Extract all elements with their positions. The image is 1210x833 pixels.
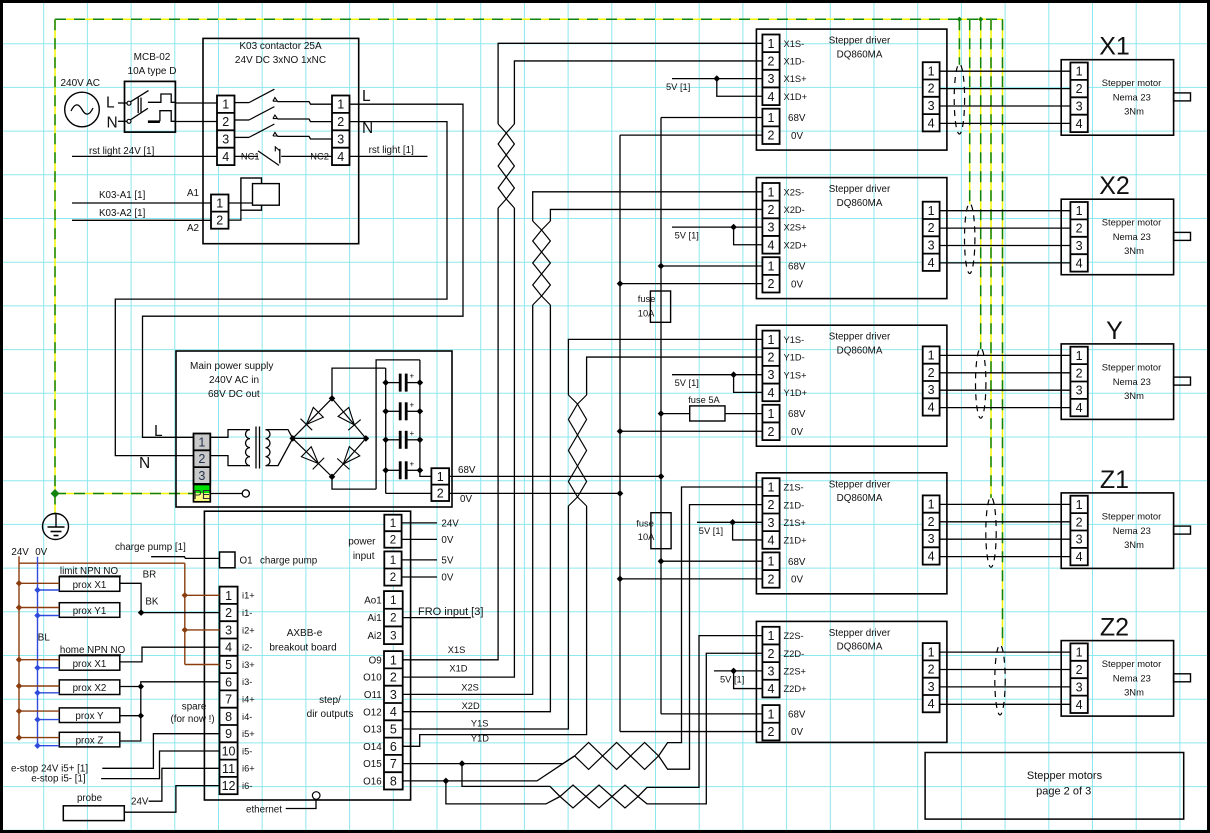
proximity sensor prox X1 xyxy=(59,656,120,671)
wire bridge bottom to capacitor bank xyxy=(332,477,376,489)
svg-text:Y1S+: Y1S+ xyxy=(784,370,807,380)
stepper motor Y shaft xyxy=(1174,377,1191,385)
label O11 xyxy=(364,690,382,701)
svg-text:N: N xyxy=(362,120,373,137)
svg-text:2: 2 xyxy=(768,277,775,291)
twisted pair X1 xyxy=(498,124,514,208)
svg-text:3Nm: 3Nm xyxy=(1124,539,1144,550)
driver X2 output terminals 1-4 xyxy=(923,202,940,271)
svg-text:3: 3 xyxy=(337,133,344,147)
svg-text:O13: O13 xyxy=(363,725,382,736)
svg-text:3: 3 xyxy=(1076,239,1083,253)
svg-text:i6-: i6- xyxy=(242,781,252,791)
PE earth dashed bus top run xyxy=(55,18,1003,20)
svg-text:Y1D+: Y1D+ xyxy=(784,388,808,398)
wire MCB L out to contactor xyxy=(175,102,217,104)
wire 24V to prox X2 xyxy=(16,683,60,689)
svg-text:1: 1 xyxy=(222,98,229,112)
svg-text:240V AC in: 240V AC in xyxy=(209,375,259,386)
label i3- xyxy=(242,677,252,687)
label i2+ xyxy=(242,625,255,635)
svg-text:i3+: i3+ xyxy=(242,660,255,670)
svg-text:4: 4 xyxy=(928,256,935,270)
wire 24V to prox X1 xyxy=(16,580,60,586)
label O10 xyxy=(363,673,382,684)
svg-text:3: 3 xyxy=(768,221,775,235)
label i1- xyxy=(242,608,252,618)
svg-text:5V [1]: 5V [1] xyxy=(675,231,699,241)
label i5+ xyxy=(242,729,255,739)
svg-text:1: 1 xyxy=(928,645,935,659)
svg-text:i2+: i2+ xyxy=(242,625,255,635)
wire O16 to Z drivers dir signal xyxy=(403,778,450,785)
svg-text:4: 4 xyxy=(768,533,775,547)
label i4- xyxy=(242,712,252,722)
wire limit prox X1 and prox Y1 to i1- xyxy=(120,583,220,616)
wire 5V [1] to driver Z1 xyxy=(697,519,762,540)
svg-text:prox Y1: prox Y1 xyxy=(73,606,107,617)
svg-text:1: 1 xyxy=(768,481,775,495)
label i1+ xyxy=(242,591,255,601)
label 0V xyxy=(460,494,472,505)
wire FRO input [3] xyxy=(403,606,484,618)
wire PE terminal to earth stub xyxy=(210,490,249,497)
svg-text:Stepper motor: Stepper motor xyxy=(1102,361,1161,372)
wire Z1 dir in xyxy=(446,756,575,781)
svg-text:i1-: i1- xyxy=(242,608,252,618)
fuse 5A xyxy=(688,395,725,421)
svg-text:Y1S: Y1S xyxy=(471,719,489,729)
svg-text:L: L xyxy=(362,88,371,105)
wire X2D O12 to driver X2 (label X2D) xyxy=(403,209,763,711)
fuse 10A lower xyxy=(636,513,671,549)
svg-text:home NPN NO: home NPN NO xyxy=(60,645,126,656)
svg-text:X1D+: X1D+ xyxy=(784,92,808,102)
svg-text:1: 1 xyxy=(1076,349,1083,363)
stepper driver U4 Z1 box xyxy=(756,473,947,594)
svg-text:68V: 68V xyxy=(788,710,806,721)
wire charge pump [1] xyxy=(115,542,220,558)
label N contactor output xyxy=(362,120,373,137)
svg-text:3Nm: 3Nm xyxy=(1124,245,1144,256)
label X1S- xyxy=(784,39,805,49)
bridge rectifier xyxy=(289,395,369,480)
svg-text:+: + xyxy=(410,372,415,381)
driver Z1 power terminals 1-2 xyxy=(762,552,779,587)
svg-text:24V DC 3xNO 1xNC: 24V DC 3xNO 1xNC xyxy=(235,55,326,66)
axis label X1 xyxy=(1099,33,1130,61)
svg-text:4: 4 xyxy=(768,386,775,400)
svg-text:DQ860MA: DQ860MA xyxy=(837,49,883,60)
svg-text:1: 1 xyxy=(1076,498,1083,512)
svg-text:4: 4 xyxy=(337,150,344,164)
svg-text:DQ860MA: DQ860MA xyxy=(837,345,883,356)
svg-text:X2D-: X2D- xyxy=(784,205,805,215)
label L contactor output xyxy=(362,88,371,105)
svg-text:Z2S+: Z2S+ xyxy=(784,667,806,677)
label 68V xyxy=(788,262,806,273)
PE junction node xyxy=(957,17,962,22)
label X2D- xyxy=(784,205,805,215)
svg-text:9: 9 xyxy=(225,727,232,741)
wire 24V to AXBB i1+ i2+ i3+ xyxy=(182,563,220,664)
wire Y1S O13 to driver Y (label Y1S) xyxy=(403,339,763,729)
svg-text:1: 1 xyxy=(768,407,775,421)
contactor K03 left terminals 1-4 xyxy=(217,96,235,166)
svg-text:7: 7 xyxy=(225,693,232,707)
label NC1 xyxy=(241,152,260,162)
stepper driver U3 Y box xyxy=(756,325,947,446)
wire 0V to driver Z2 xyxy=(620,731,762,733)
svg-text:10A: 10A xyxy=(638,309,655,319)
wire 68V to driver X2 xyxy=(658,263,763,270)
wire 68V to driver Z2 xyxy=(661,713,762,715)
svg-text:prox X1: prox X1 xyxy=(73,580,107,591)
svg-text:O12: O12 xyxy=(363,707,382,718)
twisted pair Z1 xyxy=(575,742,659,769)
svg-text:2: 2 xyxy=(390,613,396,625)
label i5- xyxy=(242,746,252,756)
svg-text:3: 3 xyxy=(768,72,775,86)
label X1S+ xyxy=(784,74,807,84)
PE earth dashed drop to Y cable shield xyxy=(980,19,982,349)
svg-text:1: 1 xyxy=(225,589,232,603)
svg-text:1: 1 xyxy=(437,470,444,484)
svg-text:1: 1 xyxy=(768,185,775,199)
label i3+ xyxy=(242,660,255,670)
label Y1D+ xyxy=(784,388,808,398)
stepper motor X2 shaft xyxy=(1174,232,1191,240)
wire rst light [1] xyxy=(350,145,428,156)
driver Z1 signal terminals 1-4 xyxy=(762,478,779,549)
wire 0V to driver Y xyxy=(617,428,763,435)
svg-text:0V: 0V xyxy=(441,572,453,583)
wire e-stop 24V i5+ [1] xyxy=(11,734,220,775)
wire probe to i6- xyxy=(124,786,219,813)
svg-text:X2S: X2S xyxy=(461,683,479,693)
driver Z2 signal terminals 1-4 xyxy=(762,627,779,698)
svg-text:X1D: X1D xyxy=(449,664,467,674)
PE earth dashed drop to ground symbol xyxy=(54,494,56,515)
capacitor C2 xyxy=(382,400,423,420)
wire driver Z2 pin 4 to motor xyxy=(940,703,1071,705)
stepper motor X2 box xyxy=(1061,199,1173,275)
stepper motor X1 shaft xyxy=(1174,93,1191,101)
svg-text:8: 8 xyxy=(390,774,397,788)
PE earth dashed bus left run xyxy=(54,19,56,493)
contactor K03 NO contact pole 1 xyxy=(235,89,333,104)
stepper motor Z1 shaft xyxy=(1174,526,1191,534)
svg-text:3: 3 xyxy=(1076,384,1083,398)
contactor K03 NO contact pole 2 xyxy=(235,107,333,122)
svg-text:Z2D-: Z2D- xyxy=(784,649,805,659)
svg-text:1: 1 xyxy=(768,260,775,274)
label 68V xyxy=(458,465,476,476)
contactor K03 box xyxy=(203,38,359,243)
ground symbol (protective earth) xyxy=(43,514,69,540)
wire Y1D O14 to driver Y (label Y1D) xyxy=(403,357,763,746)
svg-text:5V [1]: 5V [1] xyxy=(699,526,723,536)
svg-text:5: 5 xyxy=(390,722,397,736)
label O15 xyxy=(363,759,382,770)
stepper motor Z1 box xyxy=(1061,493,1173,569)
svg-text:MCB-02: MCB-02 xyxy=(134,52,171,63)
wire 0V to driver X2 xyxy=(617,280,763,287)
label power input xyxy=(348,537,376,563)
label O12 xyxy=(363,707,382,718)
svg-text:2: 2 xyxy=(1076,222,1083,236)
svg-text:Stepper driver: Stepper driver xyxy=(829,36,891,47)
label NC2 xyxy=(310,152,329,162)
svg-text:i6+: i6+ xyxy=(242,764,255,774)
label A1 xyxy=(187,188,199,199)
svg-text:3: 3 xyxy=(222,133,229,147)
cable shield Z1 xyxy=(986,497,996,567)
svg-text:3: 3 xyxy=(390,688,397,702)
svg-text:Z2S-: Z2S- xyxy=(784,631,804,641)
label 68V xyxy=(788,710,806,721)
label Z2S- xyxy=(784,631,804,641)
label O16 xyxy=(363,777,382,788)
svg-text:prox X2: prox X2 xyxy=(73,683,107,694)
label O14 xyxy=(363,742,382,753)
label Ai2 xyxy=(368,631,382,642)
svg-text:2: 2 xyxy=(216,214,223,228)
svg-text:3: 3 xyxy=(928,680,935,694)
svg-text:2: 2 xyxy=(768,725,775,739)
svg-text:DQ860MA: DQ860MA xyxy=(837,642,883,653)
svg-text:0V: 0V xyxy=(791,279,803,290)
proximity sensor prox Z xyxy=(59,732,120,747)
svg-text:3Nm: 3Nm xyxy=(1124,390,1144,401)
svg-text:2: 2 xyxy=(928,663,935,677)
stepper motor Y box xyxy=(1061,344,1173,420)
svg-text:Stepper motor: Stepper motor xyxy=(1102,217,1161,228)
svg-text:i5-: i5- xyxy=(242,746,252,756)
transformer T1 xyxy=(246,427,271,469)
svg-text:page 2 of 3: page 2 of 3 xyxy=(1036,786,1091,798)
svg-text:DQ860MA: DQ860MA xyxy=(837,198,883,209)
svg-text:Z1D-: Z1D- xyxy=(784,500,805,510)
label N at PSU xyxy=(139,455,150,472)
svg-text:fuse: fuse xyxy=(636,519,654,529)
svg-text:5V [1]: 5V [1] xyxy=(666,82,690,92)
svg-text:+: + xyxy=(410,459,415,468)
stepper motor X1 terminals 1-4 xyxy=(1070,63,1087,133)
wire MCB N out to contactor xyxy=(175,121,217,123)
wire Z2 step to driver xyxy=(638,636,762,797)
label Z1D- xyxy=(784,500,805,510)
svg-text:1: 1 xyxy=(768,111,775,125)
svg-text:3: 3 xyxy=(768,664,775,678)
svg-text:3: 3 xyxy=(928,383,935,397)
svg-text:Stepper driver: Stepper driver xyxy=(829,184,891,195)
svg-text:Z2D+: Z2D+ xyxy=(784,684,807,694)
wire 0V to prox X2 xyxy=(34,690,59,696)
wire N into MCB xyxy=(118,120,127,122)
PE earth dashed drop to Z1 cable shield xyxy=(990,19,992,498)
label X2S- xyxy=(784,187,805,197)
cable shield X2 xyxy=(965,204,975,274)
proximity sensor prox Y1 xyxy=(59,603,120,618)
svg-text:1: 1 xyxy=(768,629,775,643)
svg-text:24V: 24V xyxy=(441,518,459,529)
svg-text:1: 1 xyxy=(768,555,775,569)
svg-text:4: 4 xyxy=(768,682,775,696)
svg-text:3: 3 xyxy=(1076,680,1083,694)
svg-text:BR: BR xyxy=(143,570,157,581)
AXBB output terminals O9-O16 xyxy=(384,651,403,789)
label i4+ xyxy=(242,694,255,704)
wire N contactor to PSU xyxy=(115,122,447,456)
svg-text:L: L xyxy=(106,95,115,112)
wire Z2 dir to driver xyxy=(638,653,762,804)
driver Z1 output terminals 1-4 xyxy=(923,495,940,564)
svg-text:2: 2 xyxy=(390,671,397,685)
svg-text:1: 1 xyxy=(337,98,344,112)
svg-text:4: 4 xyxy=(928,116,935,130)
proximity sensor prox Y xyxy=(59,708,120,723)
wire rst light 24V [1] xyxy=(72,146,217,157)
svg-text:8: 8 xyxy=(225,710,232,724)
svg-text:5V [1]: 5V [1] xyxy=(675,378,699,388)
svg-text:A2: A2 xyxy=(187,223,199,234)
wire driver X2 pin 2 to motor xyxy=(940,227,1071,229)
label X2S+ xyxy=(784,223,807,233)
driver X1 signal terminals 1-4 xyxy=(762,35,779,106)
svg-text:Z1S-: Z1S- xyxy=(784,483,804,493)
stepper motor Z2 shaft xyxy=(1174,674,1191,682)
wire home prox X1 to i2- xyxy=(120,647,220,662)
title block xyxy=(925,753,1184,820)
wire prox X2 prox Y prox Z to i3- xyxy=(120,682,220,741)
proximity sensor prox X2 xyxy=(59,680,120,695)
label 5V [1] xyxy=(699,526,723,536)
wire driver X1 pin 1 to motor xyxy=(940,70,1071,72)
wire 0V to prox Y xyxy=(34,716,59,722)
capacitor bank bus right xyxy=(419,360,421,472)
svg-text:Nema 23: Nema 23 xyxy=(1113,673,1151,684)
AXBB power input terminals 24V 0V xyxy=(384,515,401,548)
MCB N thermal element xyxy=(148,111,176,122)
label 0V xyxy=(791,574,803,585)
wire 0V to prox X1 xyxy=(34,587,59,593)
capacitor bank bus left xyxy=(376,360,420,489)
wire coil A1 xyxy=(229,202,253,204)
svg-text:O14: O14 xyxy=(363,742,382,753)
label i6+ xyxy=(242,764,255,774)
svg-text:0V: 0V xyxy=(35,547,47,558)
wire Z1 step to driver xyxy=(659,487,763,756)
label Z2D- xyxy=(784,649,805,659)
stepper motor X1 box xyxy=(1061,60,1173,136)
PE junction node xyxy=(978,17,983,22)
svg-text:3: 3 xyxy=(768,516,775,530)
label Ai1 xyxy=(368,613,382,624)
svg-text:24V: 24V xyxy=(11,547,29,558)
fuse 10A upper xyxy=(638,291,671,322)
svg-text:2: 2 xyxy=(1076,366,1083,380)
svg-text:10A type D: 10A type D xyxy=(128,66,177,77)
svg-text:68V DC out: 68V DC out xyxy=(208,389,260,400)
label Z1D+ xyxy=(784,536,807,546)
stepper motor Z1 terminals 1-4 xyxy=(1070,496,1087,566)
contactor K03 right terminals 1-4 xyxy=(332,96,350,166)
svg-text:4: 4 xyxy=(1076,256,1083,270)
wire driver Z2 pin 1 to motor xyxy=(940,651,1071,653)
svg-text:Nema 23: Nema 23 xyxy=(1113,525,1151,536)
svg-text:charge pump: charge pump xyxy=(260,556,318,567)
svg-text:2: 2 xyxy=(198,452,205,466)
wire power input 24V xyxy=(402,518,460,529)
capacitor C3 xyxy=(382,429,423,449)
svg-text:Z1: Z1 xyxy=(1100,466,1129,494)
svg-text:Nema 23: Nema 23 xyxy=(1113,231,1151,242)
wire 68V to driver Y xyxy=(658,410,763,417)
label i6- xyxy=(242,781,252,791)
svg-text:spare: spare xyxy=(182,702,207,713)
AXBB input terminals i1-i6 xyxy=(220,587,238,795)
wire power input 0V xyxy=(402,572,454,583)
contactor K03 NC contact pole 4 xyxy=(235,147,333,166)
wire PSU 68V to bus xyxy=(449,473,664,480)
charge pump output O1 xyxy=(220,552,318,568)
svg-text:11: 11 xyxy=(222,762,235,776)
svg-text:4: 4 xyxy=(1076,550,1083,564)
svg-text:N: N xyxy=(139,455,150,472)
svg-text:3: 3 xyxy=(390,630,396,642)
wire 0V to driver X1 xyxy=(620,134,762,136)
wire driver Z1 pin 4 to motor xyxy=(940,556,1071,558)
svg-text:2: 2 xyxy=(768,572,775,586)
svg-text:Ai1: Ai1 xyxy=(368,613,382,624)
svg-text:0V: 0V xyxy=(791,574,803,585)
wire 24V to i6+ xyxy=(131,768,220,807)
label 0V xyxy=(791,279,803,290)
svg-text:Nema 23: Nema 23 xyxy=(1113,376,1151,387)
MCB N pole contact xyxy=(127,108,148,123)
svg-text:X2D+: X2D+ xyxy=(784,240,808,250)
circuit breaker MCB-02 10A type D xyxy=(125,52,177,132)
svg-text:4: 4 xyxy=(768,90,775,104)
svg-text:2: 2 xyxy=(768,351,775,365)
svg-text:+: + xyxy=(410,400,415,409)
svg-text:4: 4 xyxy=(928,400,935,414)
svg-text:i5+: i5+ xyxy=(242,729,255,739)
wire K03-A1 [1] xyxy=(72,190,211,203)
label O13 xyxy=(363,725,382,736)
wire driver Y pin 3 to motor xyxy=(940,389,1071,391)
svg-text:1: 1 xyxy=(1076,646,1083,660)
0V bus vertical xyxy=(619,135,621,731)
wire coil A2 xyxy=(229,210,241,220)
svg-text:K03-A2 [1]: K03-A2 [1] xyxy=(99,208,146,219)
svg-text:e-stop i5- [1]: e-stop i5- [1] xyxy=(31,774,86,785)
wire driver Z1 pin 2 to motor xyxy=(940,521,1071,523)
svg-text:2: 2 xyxy=(390,572,396,584)
twisted pair Z2 xyxy=(560,785,638,808)
svg-text:2: 2 xyxy=(768,54,775,68)
proximity sensor prox X1 xyxy=(59,577,120,592)
svg-text:O10: O10 xyxy=(363,673,382,684)
svg-text:power: power xyxy=(348,537,376,548)
wire driver Z2 pin 3 to motor xyxy=(940,686,1071,688)
contactor K03 NO contact pole 3 xyxy=(235,124,333,139)
label 68V xyxy=(788,557,806,568)
svg-text:X2S-: X2S- xyxy=(784,187,805,197)
driver Y signal terminals 1-4 xyxy=(762,331,779,402)
svg-text:O9: O9 xyxy=(369,655,382,666)
